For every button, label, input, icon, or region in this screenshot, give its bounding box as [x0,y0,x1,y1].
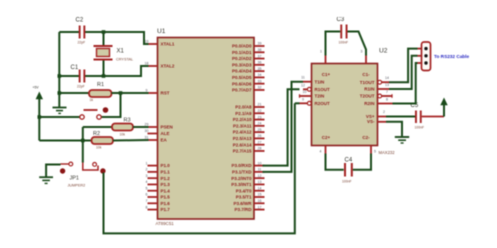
svg-text:R2IN: R2IN [364,101,374,106]
svg-text:P0.2/AD2: P0.2/AD2 [232,56,252,61]
svg-text:P3.2/INT0: P3.2/INT0 [231,176,252,181]
svg-text:22pF: 22pF [77,85,85,89]
svg-text:4: 4 [320,150,322,154]
svg-text:P2.5/A13: P2.5/A13 [233,136,252,141]
U2 pin VS- (pin 6) stub [367,119,386,124]
U2 pin T2OUT (pin 7) stub [360,90,392,99]
wire button net: +5V rail to button [39,116,79,118]
svg-text:P1.5: P1.5 [161,195,171,200]
svg-text:4: 4 [146,180,148,184]
U1 pin XTAL1 (pin 19) stub [145,40,175,47]
svg-text:26: 26 [258,134,262,138]
U1 pin P2.5/A13 (pin 26) stub [233,134,265,141]
svg-text:C1: C1 [71,65,79,71]
svg-text:22: 22 [258,109,262,113]
U2 pin VS+ (pin 2) stub [366,110,386,119]
U1 pin P3.6/WR (pin 16) stub [233,199,264,206]
svg-text:P1.6: P1.6 [161,201,171,206]
svg-text:P1.7: P1.7 [161,207,171,212]
svg-text:36: 36 [258,61,262,65]
U1 pin P1.2 (pin 3) stub [146,174,171,181]
U1 pin P0.6/AD6 (pin 33) stub [232,79,265,86]
U2 pin T2IN (pin 10) stub [300,90,325,99]
ground symbol at JP1 [39,177,53,183]
wire C1 net (XTAL2): to XTAL2 pin [59,66,148,76]
svg-text:11: 11 [301,76,305,80]
svg-text:P0.1/AD1: P0.1/AD1 [232,50,252,55]
wire C5 to power arrow [422,116,444,118]
U1 pin P3.7/RD (pin 17) stub [234,205,264,212]
svg-text:VS-: VS- [367,119,375,124]
svg-text:P2.7/A15: P2.7/A15 [233,149,252,154]
svg-text:T1OUT: T1OUT [360,80,375,85]
U1 pin P1.5 (pin 6) stub [146,193,171,200]
wire C2 net (XTAL1): left rail top to XTAL1 [59,32,148,44]
U2 pin T1OUT (pin 14) stub [360,76,389,85]
svg-text:P2.4/A12: P2.4/A12 [233,130,252,135]
junction crystal bottom on C1 wire [102,74,106,78]
resistor R2 [92,131,114,150]
junction RST wire / left rail [58,91,62,95]
wire crystal top lead [103,32,105,45]
svg-text:35: 35 [258,67,262,71]
connector J1 to RS232 cable [422,42,431,71]
wire C3 net left: C1+ to C3 [326,32,341,56]
svg-text:1k: 1k [90,98,94,102]
svg-text:C2+: C2+ [322,135,331,140]
svg-text:P0.3/AD3: P0.3/AD3 [232,62,252,67]
svg-text:13: 13 [258,180,262,184]
wire ground to JP1 left pin [46,165,60,178]
U1 pin P0.0/AD0 (pin 39) stub [232,42,265,49]
U1 pin P3.2/INT0 (pin 12) stub [231,174,264,181]
junction R3 vertical / R2 wire [81,139,85,143]
svg-text:24: 24 [258,122,262,126]
U1 pin P3.3/INT1 (pin 13) stub [231,180,264,187]
wire R3 net: vertical from R3 to JP1 [82,127,84,163]
U2 pin R1IN (pin 13) stub [364,83,389,92]
ground symbol below left rail [53,108,67,114]
svg-text:34: 34 [258,73,262,77]
svg-text:100nF: 100nF [339,41,349,45]
junction crystal top on XTAL1 wire [102,30,106,34]
wire C4 net right: C4 to C2- [353,154,371,170]
svg-text:23: 23 [258,115,262,119]
capacitor C1 [71,65,86,89]
svg-text:2: 2 [146,168,148,172]
wire RST net: rail to R1 [59,92,89,94]
svg-text:32: 32 [258,86,262,90]
svg-text:17: 17 [258,205,262,209]
U1 value label AT89C51 [156,221,175,226]
U1 pin P1.1 (pin 2) stub [146,168,171,175]
capacitor C4 [342,158,353,184]
svg-text:7: 7 [146,199,148,203]
svg-text:5: 5 [374,150,376,154]
U1 pin P2.1/A9 (pin 22) stub [235,109,264,116]
wire R3 net: R3 to PSEN pin [133,126,149,128]
capacitor C5 [411,103,425,130]
svg-text:R1: R1 [97,82,104,88]
U1 pin EA (pin 31) stub [145,136,168,143]
junction +5V rail / button wire [38,115,42,119]
U2 pin C1+ (pin 1) stub [320,50,331,78]
svg-text:P3.6/WR: P3.6/WR [233,201,252,206]
wire VS+ to C5 [386,116,415,118]
svg-text:R1IN: R1IN [364,87,374,92]
U1 pin P2.4/A12 (pin 25) stub [233,128,265,135]
wire crystal bottom lead [103,60,105,76]
svg-text:6: 6 [146,193,148,197]
U1 pin P2.3/A11 (pin 24) stub [233,122,265,129]
U2 pin R2IN (pin 8) stub [364,98,392,106]
svg-text:8: 8 [386,98,388,102]
svg-text:R1OUT: R1OUT [315,87,331,92]
svg-text:12: 12 [301,83,305,87]
wire C4 net left: C2+ to C4 [326,154,344,170]
power arrow at C5 [440,98,447,117]
svg-text:P1.2: P1.2 [161,176,171,181]
svg-text:10: 10 [258,161,262,165]
svg-text:C4: C4 [345,158,353,164]
svg-text:30: 30 [145,129,149,133]
U2 pin T1IN (pin 11) stub [301,76,324,85]
svg-text:JP1: JP1 [70,176,79,182]
svg-text:C1+: C1+ [322,72,331,77]
U1 pin P1.3 (pin 4) stub [146,180,171,187]
U1 pin P2.0/A8 (pin 21) stub [235,103,264,110]
U1 pin P2.2/A10 (pin 23) stub [233,115,265,122]
svg-text:U2: U2 [379,48,388,55]
wire T1OUT to connector pin 1 [389,49,418,83]
U1 pin P1.4 (pin 5) stub [146,186,171,193]
svg-text:22pF: 22pF [78,41,86,45]
svg-text:To RS232 Cable: To RS232 Cable [434,54,469,59]
U1 pin P0.2/AD2 (pin 37) stub [232,54,265,61]
svg-text:8: 8 [146,205,148,209]
svg-text:37: 37 [258,54,262,58]
svg-text:CRYSTAL: CRYSTAL [116,57,133,61]
U1 pin P3.1/TXD (pin 11) stub [232,168,265,175]
junction button net on RST wire [119,91,123,95]
svg-text:MAX232: MAX232 [379,150,396,155]
svg-text:38: 38 [258,48,262,52]
svg-text:P2.3/A11: P2.3/A11 [233,123,252,128]
U1 pin P2.6/A14 (pin 27) stub [233,140,265,147]
U1 pin PSEN (pin 29) stub [145,123,173,130]
svg-text:C2: C2 [76,18,84,24]
svg-text:14: 14 [258,186,262,190]
svg-text:P0.4/AD4: P0.4/AD4 [232,69,252,74]
wire RST net: R1 to RST pin [112,92,149,94]
junction C1 wire / left rail [58,74,62,78]
svg-text:T1IN: T1IN [315,79,325,84]
svg-text:14: 14 [385,76,389,80]
capacitor C2 [76,18,86,45]
ground symbol at VS- [395,137,409,143]
svg-text:T2IN: T2IN [315,94,325,99]
svg-text:15: 15 [258,193,262,197]
svg-text:R3: R3 [124,118,131,124]
svg-text:11: 11 [258,168,262,172]
wire R2IN to connector pin 3 [393,63,418,104]
svg-text:P3.5/T1: P3.5/T1 [236,195,252,200]
svg-text:R2: R2 [93,131,100,137]
wire P3.1/TXD to U2 T1IN [263,82,304,172]
svg-text:2: 2 [383,110,385,114]
wire VS- to ground [386,122,402,137]
U2 reference label [379,48,388,55]
U1 pin P3.5/T1 (pin 15) stub [236,193,265,200]
svg-text:+5V: +5V [33,86,40,90]
U2 pin C2- (pin 5) stub [362,135,376,154]
svg-text:C1-: C1- [362,72,370,77]
svg-text:13: 13 [385,83,389,87]
svg-text:3: 3 [361,50,363,54]
U2 value label MAX232 [379,150,396,155]
capacitor C3 [337,17,349,45]
svg-text:100nF: 100nF [415,126,425,130]
svg-text:C2-: C2- [362,135,370,140]
push button (reset) [80,107,108,119]
U2 pin C1- (pin 3) stub [361,50,371,78]
svg-text:ALE: ALE [161,131,170,136]
svg-text:P1.4: P1.4 [161,188,171,193]
svg-text:P2.6/A14: P2.6/A14 [233,142,252,147]
svg-text:P0.7/AD7: P0.7/AD7 [232,88,252,93]
wire R2OUT stub join [295,102,300,104]
U1 pin P1.7 (pin 8) stub [146,205,171,212]
svg-text:5: 5 [146,186,148,190]
wire R1IN to connector pin 2 [389,56,418,89]
svg-text:P3.3/INT1: P3.3/INT1 [231,182,252,187]
svg-text:EA: EA [161,138,168,143]
U1 pin P3.0/RXD (pin 10) stub [231,161,264,168]
svg-text:C3: C3 [337,17,345,23]
U1 pin ALE (pin 30) stub [145,129,170,136]
svg-text:JUMPER2: JUMPER2 [68,184,86,188]
svg-text:12: 12 [258,174,262,178]
U1 pin P0.3/AD3 (pin 36) stub [232,61,265,68]
svg-text:P3.4/T0: P3.4/T0 [236,188,252,193]
svg-text:P0.6/AD6: P0.6/AD6 [232,81,252,86]
svg-text:25: 25 [258,128,262,132]
svg-text:10: 10 [303,90,307,94]
svg-text:R2OUT: R2OUT [315,101,331,106]
crystal X1 [94,45,134,61]
svg-text:P1.3: P1.3 [161,182,171,187]
wire button to RST wire [102,93,121,117]
resistor R3 [112,118,133,137]
svg-text:P1.0: P1.0 [161,163,171,168]
svg-text:P2.2/A10: P2.2/A10 [233,117,252,122]
svg-text:3: 3 [146,174,148,178]
wire P3.0/RXD to U2 R1OUT [263,89,300,165]
U1 pin P0.4/AD4 (pin 35) stub [232,67,265,74]
label To RS232 Cable [434,54,469,59]
svg-text:10k: 10k [96,146,102,150]
U1 reference label [157,28,166,35]
U1 pin P0.7/AD7 (pin 32) stub [232,86,265,93]
svg-text:P3.0/RXD: P3.0/RXD [231,163,252,168]
svg-text:P0.0/AD0: P0.0/AD0 [232,44,252,49]
svg-text:7: 7 [386,90,388,94]
power +5V symbol [33,86,44,118]
U1 pin P1.6 (pin 7) stub [146,199,171,206]
jumper JP1 (JUMPER2) [60,162,106,187]
svg-text:39: 39 [258,42,262,46]
svg-text:28: 28 [258,147,262,151]
driver U2 body (MAX232) [312,64,378,146]
svg-text:9: 9 [302,97,304,101]
U1 pin P0.1/AD1 (pin 38) stub [232,48,265,55]
svg-text:U1: U1 [157,28,166,35]
wire C3 net right: C3 to C1- [348,32,367,56]
connector J1 pin stubs [418,49,423,63]
svg-text:RST: RST [161,91,170,96]
svg-text:100nF: 100nF [342,180,352,184]
svg-text:AT89C51: AT89C51 [156,221,175,226]
wire left ground rail vertical [58,32,60,108]
U1 pin XTAL2 (pin 18) stub [145,62,175,69]
U2 pin C2+ (pin 4) stub [320,135,331,154]
svg-text:P3.7/RD: P3.7/RD [234,207,252,212]
U1 pin P3.4/T0 (pin 14) stub [236,186,265,193]
svg-text:1: 1 [146,161,148,165]
svg-text:27: 27 [258,140,262,144]
svg-text:21: 21 [258,103,262,107]
wire JP1 right pin to bottom run [104,103,295,233]
svg-text:PSEN: PSEN [161,125,173,130]
svg-text:1: 1 [320,50,322,54]
svg-text:XTAL2: XTAL2 [161,64,175,69]
U1 pin RST (pin 9) stub [146,89,170,96]
svg-text:X1: X1 [117,49,125,55]
U1 pin P0.5/AD5 (pin 34) stub [232,73,265,80]
svg-text:P3.1/TXD: P3.1/TXD [232,169,252,174]
svg-text:P2.0/A8: P2.0/A8 [235,105,252,110]
U1 pin P2.7/A15 (pin 28) stub [233,147,265,154]
U2 pin R1OUT (pin 12) stub [301,83,330,92]
wire R2 net: R2 to EA pin [113,139,149,142]
resistor R1 [89,82,112,102]
svg-text:P1.1: P1.1 [161,169,171,174]
wire +5V rail down to R2 [38,117,40,141]
svg-text:P2.1/A9: P2.1/A9 [235,111,252,116]
wire R2 net: rail to R2 [39,140,91,142]
U1 pin P1.0 (pin 1) stub [146,161,171,168]
svg-text:10k: 10k [120,133,126,137]
svg-text:XTAL1: XTAL1 [161,42,175,47]
wire R3 net: to R3 [83,126,112,128]
U2 pin R2OUT (pin 9) stub [300,97,331,106]
svg-text:16: 16 [258,199,262,203]
svg-text:P0.5/AD5: P0.5/AD5 [232,75,252,80]
microcontroller U1 body (AT89C51) [158,38,255,220]
svg-text:33: 33 [258,79,262,83]
svg-text:T2OUT: T2OUT [360,94,375,99]
